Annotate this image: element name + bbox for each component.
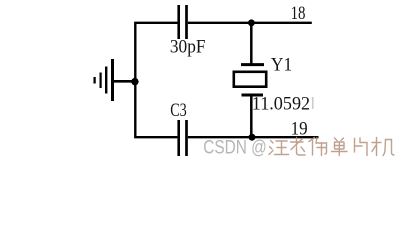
junction dot at ground [131, 78, 138, 85]
svg-text:18: 18 [291, 3, 306, 24]
junction dot bottom (node to pin 19) [249, 134, 256, 141]
junction dot top (node to pin 18) [248, 19, 255, 26]
ground bar 4 (shortest) [93, 77, 95, 84]
glyph 机 [372, 138, 394, 156]
ground stub wire [114, 80, 136, 83]
svg-text:19: 19 [291, 119, 308, 140]
wire: vertical from top node down to crystal [250, 23, 253, 64]
crystal Y1 body rectangle [234, 72, 266, 87]
wire: top horizontal from C2 right plate to pin 18 [188, 22, 312, 24]
crystal Y1 bottom plate [242, 94, 264, 97]
wire: vertical from crystal down to bottom node [250, 96, 253, 137]
capacitor C3 left plate [177, 120, 180, 156]
svg-text:Y1: Y1 [271, 55, 292, 76]
glyph 汪 [269, 141, 289, 155]
clipped partial character after value [312, 97, 314, 109]
crystal Y1 top plate [241, 63, 264, 66]
glyph 单 [332, 138, 348, 156]
ground bar 1 (tallest) [111, 59, 114, 101]
ground symbol [95, 59, 136, 101]
svg-text:CSDN @: CSDN @ [203, 138, 267, 159]
watermark CJK 汪老师单片机 (hand-drawn strokes) [269, 138, 394, 156]
glyph 师 [309, 138, 327, 156]
svg-text:11.0592: 11.0592 [252, 93, 310, 114]
svg-text:30pF: 30pF [170, 37, 206, 58]
wire: bottom horizontal from C3 right plate to pin 19 [188, 136, 319, 138]
ground bar 3 [99, 73, 101, 89]
glyph 片 [355, 138, 368, 156]
wire: left loop (top-left corner, left vertical, bottom-left corner) [135, 23, 177, 137]
capacitor 30pF right plate [185, 5, 188, 39]
ground bar 2 [105, 67, 107, 94]
capacitor C3 right plate [185, 120, 188, 156]
svg-text:C3: C3 [170, 100, 187, 121]
glyph 老 [291, 138, 306, 156]
capacitor 30pF left plate [177, 5, 180, 39]
